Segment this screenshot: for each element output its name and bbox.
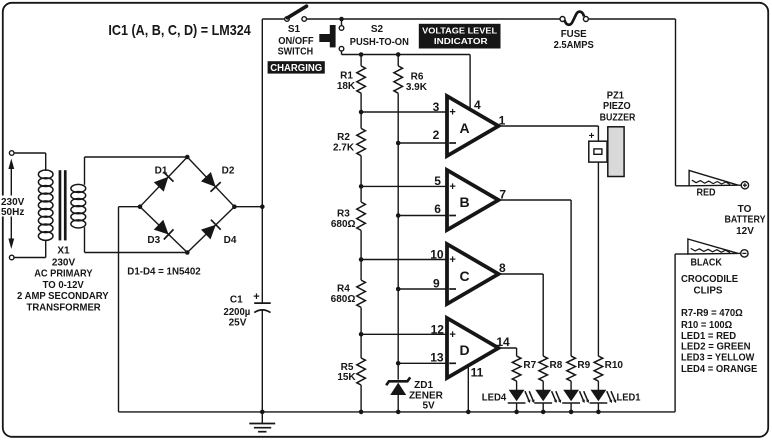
svg-text:CHARGING: CHARGING [270, 63, 322, 74]
svg-text:CLIPS: CLIPS [694, 286, 723, 297]
svg-text:PZ1: PZ1 [607, 90, 625, 101]
svg-text:D1: D1 [155, 165, 168, 176]
svg-text:C1: C1 [230, 295, 243, 306]
svg-text:+: + [449, 107, 455, 119]
svg-text:SWITCH: SWITCH [278, 46, 314, 57]
svg-text:+: + [449, 254, 455, 266]
svg-text:R2: R2 [337, 132, 350, 143]
svg-text:14: 14 [496, 335, 510, 349]
svg-text:R9: R9 [577, 360, 590, 371]
svg-text:+: + [449, 329, 455, 341]
svg-text:D3: D3 [147, 235, 160, 246]
svg-text:25V: 25V [229, 318, 247, 329]
svg-text:12: 12 [431, 322, 445, 336]
svg-text:R7: R7 [523, 360, 536, 371]
svg-text:LED4: LED4 [482, 392, 507, 403]
svg-text:2200µ: 2200µ [224, 307, 251, 318]
svg-text:9: 9 [433, 276, 440, 290]
svg-text:+: + [449, 181, 455, 193]
svg-text:TRANSFORMER: TRANSFORMER [27, 303, 102, 314]
svg-text:R8: R8 [550, 360, 563, 371]
svg-text:15K: 15K [337, 372, 356, 383]
svg-text:2.7K: 2.7K [333, 143, 355, 154]
svg-text:R10: R10 [605, 360, 624, 371]
svg-text:13: 13 [430, 351, 444, 365]
svg-text:BUZZER: BUZZER [600, 113, 636, 124]
svg-text:LED1: LED1 [617, 392, 641, 403]
svg-text:TO 0-12V: TO 0-12V [43, 280, 85, 291]
svg-text:18K: 18K [337, 81, 356, 92]
svg-text:680Ω: 680Ω [331, 294, 356, 305]
svg-text:BATTERY: BATTERY [725, 215, 766, 226]
svg-text:12V: 12V [736, 226, 754, 237]
svg-text:R3: R3 [337, 208, 350, 219]
svg-text:230V: 230V [52, 257, 76, 268]
svg-text:INDICATOR: INDICATOR [434, 36, 489, 46]
svg-text:3.9K: 3.9K [406, 82, 428, 93]
svg-text:C: C [459, 268, 469, 284]
svg-text:R4: R4 [337, 284, 350, 295]
svg-text:D2: D2 [222, 165, 235, 176]
svg-text:11: 11 [471, 365, 484, 379]
svg-text:R6: R6 [411, 72, 424, 83]
svg-text:PIEZO: PIEZO [603, 101, 631, 112]
svg-text:D4: D4 [224, 235, 237, 246]
svg-text:AC PRIMARY: AC PRIMARY [34, 268, 93, 279]
svg-text:VOLTAGE LEVEL: VOLTAGE LEVEL [422, 26, 497, 36]
svg-text:LED1 = RED: LED1 = RED [681, 331, 736, 342]
svg-text:10: 10 [430, 248, 444, 262]
svg-text:LED4 = ORANGE: LED4 = ORANGE [681, 364, 758, 375]
svg-text:50Hz: 50Hz [1, 207, 24, 218]
svg-text:D1-D4 = 1N5402: D1-D4 = 1N5402 [127, 267, 201, 278]
svg-text:+: + [253, 291, 259, 303]
svg-text:TO: TO [738, 204, 752, 215]
svg-text:+: + [589, 131, 595, 142]
svg-text:6: 6 [434, 202, 441, 216]
svg-text:BLACK: BLACK [690, 257, 722, 268]
svg-text:PUSH-TO-ON: PUSH-TO-ON [350, 37, 409, 48]
svg-text:R1: R1 [340, 71, 353, 82]
svg-text:S2: S2 [371, 24, 384, 35]
svg-text:4: 4 [474, 98, 481, 112]
svg-text:7: 7 [499, 188, 506, 202]
svg-text:S1: S1 [288, 24, 301, 35]
svg-text:LED3 = YELLOW: LED3 = YELLOW [681, 353, 755, 364]
svg-text:5V: 5V [422, 401, 435, 412]
svg-text:680Ω: 680Ω [331, 219, 356, 230]
svg-text:R7-R9 = 470Ω: R7-R9 = 470Ω [681, 308, 743, 319]
svg-text:ZD1: ZD1 [414, 380, 433, 391]
svg-text:ON/OFF: ON/OFF [278, 36, 313, 47]
svg-text:3: 3 [433, 100, 440, 114]
svg-text:2: 2 [433, 128, 440, 142]
svg-text:A: A [459, 120, 469, 136]
svg-text:LED2 = GREEN: LED2 = GREEN [681, 342, 751, 353]
svg-text:CROCODILE: CROCODILE [681, 274, 738, 285]
svg-text:5: 5 [434, 174, 441, 188]
svg-text:2 AMP SECONDARY: 2 AMP SECONDARY [17, 291, 109, 302]
svg-text:IC1 (A, B, C, D) = LM324: IC1 (A, B, C, D) = LM324 [108, 22, 251, 39]
svg-text:D: D [459, 342, 469, 358]
svg-text:FUSE: FUSE [561, 29, 587, 40]
svg-text:1: 1 [499, 113, 506, 127]
svg-text:R10 = 100Ω: R10 = 100Ω [681, 320, 732, 331]
svg-text:RED: RED [696, 188, 715, 199]
svg-text:2.5AMPS: 2.5AMPS [554, 40, 595, 51]
svg-text:X1: X1 [57, 246, 70, 257]
svg-text:B: B [459, 194, 469, 210]
svg-text:8: 8 [499, 261, 506, 275]
